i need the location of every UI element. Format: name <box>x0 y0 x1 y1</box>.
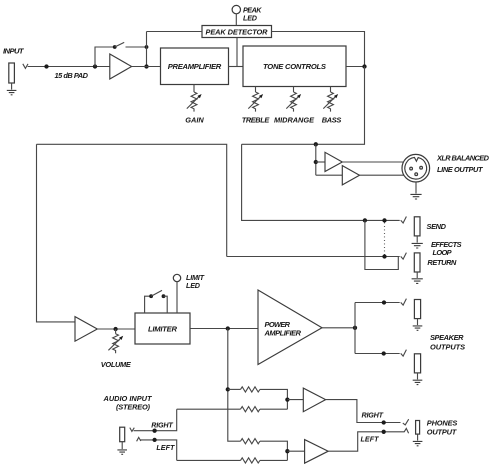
svg-text:VOLUME: VOLUME <box>101 360 132 369</box>
svg-text:OUTPUTS: OUTPUTS <box>430 343 465 352</box>
wire R1 right <box>260 389 288 409</box>
wire return to limiter bus <box>37 144 227 256</box>
svg-text:SPEAKER: SPEAKER <box>430 333 464 342</box>
resistor R3 <box>241 439 260 444</box>
wire speaker jack J4 sleeve <box>417 319 419 326</box>
volume pot VR5 <box>108 334 123 354</box>
wire peak-det right <box>272 32 365 67</box>
phones jack J7 <box>416 421 420 435</box>
wire speaker bottom <box>355 353 400 355</box>
amplifier A1 input buffer <box>110 54 132 79</box>
wire R2 left <box>177 408 241 410</box>
peak LED D1 <box>232 5 240 13</box>
svg-text:PREAMPLIFIER: PREAMPLIFIER <box>168 62 222 71</box>
speaker jack tip contact top <box>401 299 407 306</box>
XLR pin 3 <box>420 166 423 169</box>
wire phones feed down <box>228 329 241 442</box>
junction dot left mix node <box>285 449 289 453</box>
ground audio jack <box>117 450 127 454</box>
wire limit switch right leg <box>164 296 168 313</box>
wire speaker jack J5 sleeve <box>417 373 419 380</box>
wire tone out down to bus <box>242 67 365 145</box>
wire power amp out <box>322 327 355 329</box>
return jack J3 <box>414 253 420 272</box>
send jack J2 <box>414 217 420 236</box>
wire return jack sleeve <box>416 272 418 278</box>
junction dot speaker bottom <box>382 351 386 355</box>
wire send feed down <box>242 144 400 220</box>
svg-text:RIGHT: RIGHT <box>362 411 384 420</box>
junction dot phones feed <box>226 326 230 330</box>
speaker jack J4 <box>414 300 420 319</box>
junction dot tone out <box>362 64 366 68</box>
midrange pot VR3 <box>286 92 301 112</box>
wire return bypass <box>365 220 398 269</box>
bass pot VR4 <box>323 92 338 112</box>
junction dot pad branch <box>93 64 97 68</box>
limiter box U4 <box>135 313 190 344</box>
ground speaker jack J5 <box>413 380 423 384</box>
XLR pin 1 <box>415 173 418 176</box>
wire limit switch left leg <box>145 296 152 313</box>
svg-text:RIGHT: RIGHT <box>151 420 173 429</box>
svg-text:LOOP: LOOP <box>433 248 452 257</box>
wire speaker top <box>355 302 400 304</box>
limit switch S2 pole dot <box>149 294 153 298</box>
wire preamp out to tone controls <box>229 66 244 68</box>
wire LED to peak detector <box>235 14 237 26</box>
XLR connector insert <box>405 157 427 179</box>
tone controls box U3 <box>243 46 346 87</box>
junction dot input <box>44 64 48 68</box>
wire phones jack sleeve <box>417 434 419 441</box>
junction dot right mix node <box>285 397 289 401</box>
wire return line <box>227 256 400 258</box>
preamplifier box U1 <box>161 48 229 85</box>
speaker jack tip contact bottom <box>401 350 407 357</box>
svg-text:AMPLIFIER: AMPLIFIER <box>264 328 302 337</box>
wire jack sleeve to ground <box>11 83 13 90</box>
svg-text:LED: LED <box>186 281 200 290</box>
pad switch S1 pole dot <box>113 45 117 49</box>
ground return jack <box>412 279 423 284</box>
resistor R1 <box>241 387 260 392</box>
junction dot xlr buffer1 <box>314 160 318 164</box>
junction dot speaker split <box>353 326 357 330</box>
audio input jack J6 <box>120 427 125 442</box>
svg-text:LINE OUTPUT: LINE OUTPUT <box>437 165 484 174</box>
wire input to pad amp <box>28 66 110 68</box>
junction dot switch node <box>145 45 149 49</box>
svg-text:15 dB PAD: 15 dB PAD <box>55 71 89 80</box>
svg-text:MIDRANGE: MIDRANGE <box>274 115 315 124</box>
wire pad switch to node <box>126 46 147 48</box>
input jack tip contact <box>23 64 28 69</box>
svg-text:LED: LED <box>243 13 257 22</box>
wire A4 to phones left <box>328 432 404 451</box>
wire A2 to limiter <box>97 328 135 330</box>
wire R2 right <box>260 408 288 410</box>
wire main bus down <box>37 144 76 322</box>
audio jack tip contact right <box>130 428 135 432</box>
wire peak-det bottom tap <box>236 38 238 67</box>
pad switch S1 arm <box>115 42 125 47</box>
junction dot phones left <box>382 430 386 434</box>
wire peak-det left tap vertical <box>146 32 148 67</box>
xlr buffer B1 <box>325 152 342 171</box>
send jack tip contact <box>401 217 407 224</box>
power amplifier A5 <box>258 290 322 365</box>
wire speaker split vertical <box>354 303 356 354</box>
speaker jack J5 <box>414 354 420 373</box>
limit LED D2 <box>173 274 180 281</box>
junction dot audio right <box>152 429 156 433</box>
ground speaker jack J4 <box>413 326 423 330</box>
svg-text:PEAK DETECTOR: PEAK DETECTOR <box>206 28 269 37</box>
junction dot preamp input node <box>144 64 148 68</box>
amplifier A2 limiter driver <box>75 317 97 342</box>
wire mix node to A3 <box>287 399 303 401</box>
svg-text:XLR BALANCED: XLR BALANCED <box>436 154 490 163</box>
input jack J1 <box>9 63 15 83</box>
wire audio jack sleeve <box>121 442 123 449</box>
return jack tip contact <box>401 253 407 260</box>
wire xlr branch down <box>315 144 317 175</box>
treble pot VR2 stem <box>255 87 257 93</box>
wire tone out <box>346 66 365 68</box>
gain pot VR1 <box>187 92 202 112</box>
phones jack ring contact <box>404 428 409 433</box>
XLR connector outer shell <box>402 154 430 182</box>
wire R4 right <box>260 459 288 461</box>
ground send jack <box>412 243 423 248</box>
dotted normal connection <box>384 223 386 256</box>
ground XLR <box>410 194 421 199</box>
svg-text:TREBLE: TREBLE <box>242 115 271 124</box>
svg-text:OUTPUT: OUTPUT <box>427 428 458 437</box>
treble pot VR2 <box>248 92 263 112</box>
junction dot speaker top <box>382 300 386 304</box>
wire pad bypass up <box>95 47 115 67</box>
wire R1 left <box>228 388 241 390</box>
wire to buffer B2 <box>316 174 343 176</box>
resistor R4 <box>241 458 260 463</box>
wire R4 left <box>177 459 241 461</box>
bass pot VR4 stem <box>330 87 332 93</box>
xlr buffer B2 <box>342 166 359 185</box>
svg-text:SEND: SEND <box>427 222 447 231</box>
gain pot VR1 stem <box>193 85 195 93</box>
wire limiter to power amp <box>190 328 258 330</box>
audio jack ring contact left <box>137 437 141 441</box>
ground phones jack <box>413 441 423 445</box>
wire XLR shell to ground <box>415 182 417 194</box>
junction dot mix right <box>226 387 230 391</box>
wire B2 to XLR pin3 <box>360 174 405 176</box>
volume pot VR5 stem <box>115 329 117 334</box>
svg-text:LEFT: LEFT <box>361 435 380 444</box>
wire B1 to XLR pin2 <box>342 161 403 163</box>
junction dot phones right <box>382 420 386 424</box>
wire A3 to phones right <box>326 400 401 423</box>
junction dot xlr branch <box>314 142 318 146</box>
resistor R2 <box>241 407 260 412</box>
peak detector box U2 <box>202 26 272 38</box>
wire limit LED stem <box>176 282 178 313</box>
junction dot audio left <box>152 438 156 442</box>
wire audio right <box>134 409 177 431</box>
junction dot volume <box>113 327 117 331</box>
svg-text:(STEREO): (STEREO) <box>116 403 151 412</box>
svg-text:PHONES: PHONES <box>427 419 458 428</box>
wire R3 right <box>260 441 288 460</box>
wire audio left <box>140 440 176 461</box>
svg-text:GAIN: GAIN <box>185 115 204 124</box>
wire R3 left corner <box>240 440 242 442</box>
svg-text:TONE CONTROLS: TONE CONTROLS <box>263 62 326 71</box>
phones amp A4 <box>305 440 329 464</box>
wire A1 to preamp <box>132 66 161 68</box>
svg-text:LEFT: LEFT <box>156 443 175 452</box>
midrange pot VR3 stem <box>293 87 295 93</box>
limit switch S2 throw dot <box>162 294 166 298</box>
junction dot send bypass <box>363 218 367 222</box>
ground input jack <box>7 90 17 94</box>
wire mix node to A4 <box>287 450 304 452</box>
junction dot return normal <box>382 254 386 258</box>
wire to buffer B1 <box>316 161 325 163</box>
junction dot send normal <box>382 218 386 222</box>
phones jack tip contact <box>403 419 409 425</box>
XLR pin 2 <box>410 167 413 170</box>
svg-text:BASS: BASS <box>322 115 342 124</box>
phones amp A3 <box>303 388 325 412</box>
svg-text:LIMITER: LIMITER <box>148 325 178 334</box>
svg-text:INPUT: INPUT <box>3 47 25 56</box>
wire peak-det left <box>147 31 203 33</box>
wire send jack sleeve <box>416 236 418 243</box>
svg-text:RETURN: RETURN <box>427 258 457 267</box>
limit switch S2 arm <box>151 290 162 296</box>
